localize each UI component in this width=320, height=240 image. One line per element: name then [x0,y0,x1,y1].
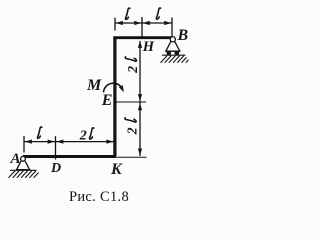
svg-text:Рис. С1.8: Рис. С1.8 [69,189,129,205]
svg-text:2: 2 [79,128,87,143]
svg-text:A: A [10,151,21,167]
svg-text:D: D [50,161,61,176]
svg-text:2: 2 [126,127,141,135]
svg-text:M: M [86,77,102,94]
svg-text:H: H [142,39,155,55]
svg-text:K: K [110,161,123,178]
svg-text:2: 2 [126,66,141,74]
svg-text:B: B [177,27,189,44]
svg-text:E: E [101,92,113,109]
